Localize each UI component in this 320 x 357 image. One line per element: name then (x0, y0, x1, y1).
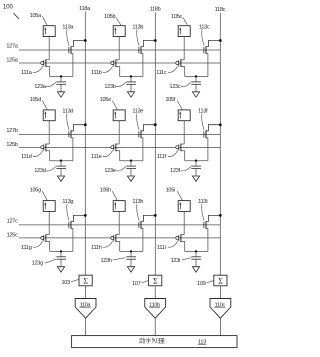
junction dot on 118c (cell c) (219, 39, 222, 42)
photodiode box 105b (113, 26, 125, 37)
label 123f (170, 167, 191, 175)
svg-text:113e: 113e (132, 109, 143, 115)
svg-text:123g: 123g (32, 261, 43, 267)
row line 125b (6, 142, 220, 148)
capacitor 123h (126, 251, 136, 266)
ground (cell i) (192, 267, 199, 272)
column line 118b (150, 7, 161, 276)
node wire (cell d) (50, 160, 73, 162)
node junction dot (cell b) (130, 75, 132, 77)
node wire (cell e) (120, 160, 143, 162)
amplifier 110c (210, 299, 231, 319)
label 111f (157, 150, 178, 160)
capacitor 123c (191, 77, 201, 92)
capacitor 123f (191, 161, 201, 176)
label 105c (171, 14, 187, 25)
node wire (cell b) (120, 76, 143, 78)
junction dot on 118b (cell b) (154, 39, 157, 42)
label 107 (132, 280, 148, 287)
svg-text:125a: 125a (6, 58, 18, 64)
svg-text:113: 113 (198, 339, 206, 345)
wire box-to-111e (118, 121, 120, 144)
photodiode box 105c (178, 26, 190, 37)
row line 127b (6, 128, 220, 135)
transistor 113c (204, 41, 220, 77)
svg-text:127b: 127b (6, 128, 17, 134)
svg-text:123e: 123e (104, 168, 115, 174)
svg-text:113b: 113b (132, 24, 143, 30)
svg-text:123a: 123a (34, 84, 46, 90)
node wire (cell i) (185, 250, 208, 252)
label 113e (132, 109, 143, 131)
node junction dot (cell a) (60, 75, 62, 77)
label 123e (104, 167, 126, 175)
photodiode box 105f (178, 110, 190, 121)
junction dot on 118c (cell f) (219, 123, 222, 126)
svg-text:118a: 118a (79, 6, 91, 12)
photodiode box 105e (113, 110, 125, 121)
label 123h (100, 258, 125, 264)
capacitor 123a (56, 77, 66, 92)
svg-text:105g: 105g (30, 188, 41, 194)
svg-text:111a: 111a (21, 70, 33, 76)
ground (cell f) (192, 176, 199, 181)
label 111e (91, 150, 113, 160)
junction dot on 118b (cell e) (154, 123, 157, 126)
transistor 111h (111, 234, 120, 251)
column line 118c (215, 7, 226, 275)
label 113b (132, 24, 143, 46)
junction dot on 118a (cell d) (84, 123, 87, 126)
label 105b (104, 14, 121, 25)
label 105f (165, 97, 182, 110)
label 105d (30, 97, 48, 110)
label 109 (197, 280, 214, 287)
node wire (cell g) (50, 250, 73, 252)
svg-text:125c: 125c (7, 233, 18, 239)
wire box-to-111i (183, 211, 185, 234)
transistor 111a (41, 59, 50, 76)
label 113i (198, 199, 207, 221)
label 113c (199, 24, 210, 46)
amplifier 110b (145, 299, 166, 319)
label 105e (100, 97, 118, 110)
svg-text:111c: 111c (156, 70, 167, 76)
node wire (cell h) (120, 250, 143, 252)
label 111g (21, 241, 43, 251)
svg-text:105c: 105c (171, 14, 182, 20)
svg-text:123f: 123f (170, 168, 180, 174)
label 123g (32, 259, 56, 267)
svg-text:105e: 105e (100, 97, 111, 103)
row line 125c (7, 233, 221, 239)
svg-text:113g: 113g (62, 199, 73, 205)
wire box-to-111c (183, 37, 185, 60)
svg-text:100: 100 (3, 5, 13, 11)
svg-text:111e: 111e (91, 154, 102, 160)
svg-text:125b: 125b (6, 142, 17, 148)
svg-text:105b: 105b (104, 14, 115, 20)
label 111a (21, 66, 43, 76)
wire box-to-111a (48, 37, 50, 60)
summation block 103 (Σ) (79, 275, 92, 286)
transistor 113d (69, 125, 85, 161)
svg-text:111b: 111b (91, 70, 102, 76)
svg-text:111g: 111g (21, 245, 32, 251)
ground (cell c) (192, 92, 199, 97)
wire box-to-111f (183, 121, 185, 144)
node wire (cell f) (185, 160, 208, 162)
svg-text:113a: 113a (62, 24, 74, 30)
wire sigma-to-amp (107) (154, 286, 156, 299)
amplifier 110a (75, 299, 96, 319)
summation block 107 (Σ) (149, 275, 162, 286)
label 111b (91, 66, 113, 76)
wire sigma-to-amp (109) (219, 286, 221, 299)
capacitor 123g (56, 251, 66, 266)
node junction dot (cell g) (60, 250, 62, 252)
ground (cell g) (57, 267, 64, 272)
node junction dot (cell c) (195, 75, 197, 77)
transistor 113i (204, 215, 220, 251)
svg-text:123i: 123i (171, 258, 180, 264)
label 123d (34, 167, 56, 175)
svg-text:Σ: Σ (83, 276, 88, 285)
transistor 111c (176, 59, 185, 76)
transistor 111g (41, 234, 50, 251)
transistor 111i (176, 234, 185, 251)
wire box-to-111g (48, 211, 50, 234)
label 113g (62, 199, 73, 221)
svg-text:111d: 111d (21, 154, 32, 160)
transistor 111e (111, 144, 120, 161)
svg-text:123b: 123b (104, 84, 115, 90)
svg-text:109: 109 (197, 281, 206, 287)
svg-text:127a: 127a (6, 44, 18, 50)
transistor 113b (139, 41, 155, 77)
junction dot on 118a (cell a) (84, 39, 87, 42)
wire box-to-111b (118, 37, 120, 60)
junction dot on 118b (cell h) (154, 214, 157, 217)
label 123c (170, 82, 191, 90)
ground (cell e) (127, 176, 134, 181)
row line 127c (7, 218, 221, 225)
node wire (cell c) (185, 76, 208, 78)
wire amp-to-processor (110b) (154, 318, 156, 335)
svg-text:111h: 111h (91, 245, 102, 251)
svg-text:111f: 111f (157, 154, 167, 160)
transistor 113e (139, 125, 155, 161)
svg-text:118b: 118b (150, 7, 161, 13)
svg-text:113h: 113h (132, 199, 143, 205)
node junction dot (cell i) (195, 250, 197, 252)
wire amp-to-processor (110c) (219, 318, 221, 335)
label 113f (198, 109, 208, 131)
row line 127a (6, 44, 220, 51)
svg-text:Σ: Σ (153, 276, 158, 285)
node junction dot (cell e) (130, 160, 132, 162)
svg-text:105i: 105i (166, 188, 175, 194)
wire box-to-111h (118, 211, 120, 234)
svg-text:113i: 113i (198, 199, 207, 205)
junction dot on 118a (cell g) (84, 214, 87, 217)
photodiode box 105h (113, 201, 125, 212)
label 113d (62, 109, 73, 131)
capacitor 123i (191, 251, 201, 266)
photodiode box 105g (43, 201, 55, 212)
label 103 (61, 279, 78, 286)
label 113a (62, 24, 74, 46)
node junction dot (cell f) (195, 160, 197, 162)
svg-text:103: 103 (61, 280, 70, 286)
svg-text:105f: 105f (165, 97, 175, 103)
wire amp-to-processor (110a) (85, 318, 87, 335)
capacitor 123b (126, 77, 136, 92)
transistor 113f (204, 125, 220, 161)
ground (cell d) (57, 176, 64, 181)
column line 118a (79, 6, 91, 275)
digital processing box 113 (72, 336, 237, 348)
svg-text:105d: 105d (30, 97, 41, 103)
capacitor 123d (56, 161, 66, 176)
svg-text:Σ: Σ (218, 276, 223, 285)
label 105h (100, 188, 118, 201)
photodiode box 105a (43, 26, 55, 37)
label 123b (104, 82, 126, 90)
capacitor 123e (126, 161, 136, 176)
svg-text:123c: 123c (170, 84, 181, 90)
photodiode box 105d (43, 110, 55, 121)
label 105i (166, 188, 183, 201)
svg-text:107: 107 (132, 281, 141, 287)
transistor 113h (139, 215, 155, 251)
photodiode box 105i (178, 201, 190, 212)
label 105g (30, 188, 48, 201)
row line 125a (6, 58, 220, 64)
svg-text:113d: 113d (62, 109, 73, 115)
node junction dot (cell h) (130, 250, 132, 252)
transistor 113g (69, 215, 85, 251)
svg-text:123h: 123h (100, 258, 111, 264)
ground (cell b) (127, 92, 134, 97)
label 123i (171, 258, 191, 264)
node junction dot (cell d) (60, 160, 62, 162)
label 111d (21, 150, 43, 160)
label 111h (91, 241, 113, 251)
wire sigma-to-amp (103) (85, 286, 87, 299)
svg-text:123d: 123d (34, 168, 45, 174)
wire box-to-111d (48, 121, 50, 144)
figure number 100 (3, 5, 19, 19)
summation block 109 (Σ) (214, 275, 227, 286)
transistor 111b (111, 59, 120, 76)
svg-text:113c: 113c (199, 24, 210, 30)
label 111i (157, 241, 178, 251)
svg-text:127c: 127c (7, 218, 18, 224)
label 123a (34, 82, 56, 90)
svg-text:111i: 111i (157, 245, 166, 251)
ground (cell h) (127, 267, 134, 272)
svg-text:105h: 105h (100, 188, 111, 194)
svg-text:118c: 118c (215, 7, 226, 13)
transistor 111f (176, 144, 185, 161)
transistor 111d (41, 144, 50, 161)
label 113h (132, 199, 143, 221)
ground (cell a) (57, 92, 64, 97)
svg-text:113f: 113f (198, 109, 208, 115)
label 105a (30, 13, 48, 26)
junction dot on 118c (cell i) (219, 214, 222, 217)
svg-text:105a: 105a (30, 13, 42, 19)
transistor 113a (69, 41, 85, 77)
label 111c (156, 66, 177, 76)
node wire (cell a) (50, 76, 73, 78)
